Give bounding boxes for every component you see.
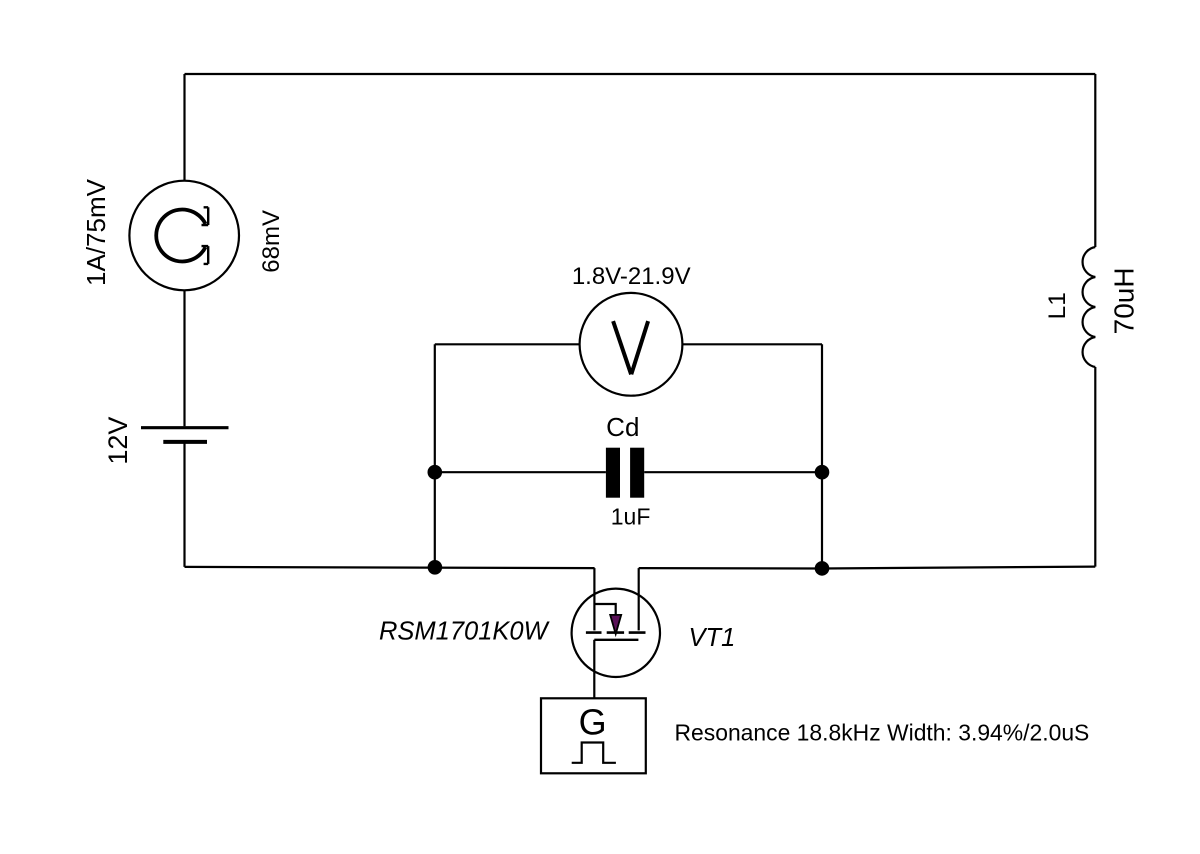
junction node bottom right [815, 561, 830, 576]
voltmeter circle V1 [580, 293, 683, 396]
wire left rail upper [183, 74, 185, 181]
svg-text:Cd: Cd [606, 412, 639, 442]
wire capacitor right [644, 471, 822, 473]
current probe inner ring (open right) [156, 210, 205, 262]
svg-text:70uH: 70uH [1109, 267, 1140, 334]
current probe bracket bottom [202, 246, 209, 264]
gate driver box G [541, 698, 646, 773]
junction node cap right [815, 465, 830, 480]
wire voltmeter right horizontal [682, 343, 822, 345]
gate driver pulse symbol [572, 743, 616, 763]
svg-text:RSM1701K0W: RSM1701K0W [379, 617, 551, 645]
capacitor Cd plate right [630, 448, 644, 498]
current probe circle [129, 181, 239, 291]
wire top rail [185, 73, 1096, 75]
wire bottom rail right [639, 567, 1096, 569]
mosfet gate lead [593, 640, 595, 699]
wire right rail lower [1094, 367, 1096, 567]
mosfet gate electrode [594, 639, 638, 641]
wire right rail upper [1094, 74, 1096, 247]
wire bottom rail left [185, 567, 595, 568]
svg-text:Resonance 18.8kHz Width: 3.94%: Resonance 18.8kHz Width: 3.94%/2.0uS [675, 720, 1090, 746]
inductor L1 70uH [1083, 247, 1096, 367]
svg-text:1.8V-21.9V: 1.8V-21.9V [572, 263, 691, 290]
mosfet drain lead [593, 568, 595, 630]
svg-text:L1: L1 [1044, 292, 1071, 319]
wire voltmeter branch right vertical [821, 344, 823, 568]
wire capacitor left [435, 471, 606, 473]
wire left rail lower (battery to bottom) [183, 444, 185, 567]
mosfet body branch [594, 604, 615, 615]
battery 12V short plate [163, 440, 207, 444]
voltmeter V glyph [613, 321, 648, 374]
junction node bottom left [428, 560, 443, 575]
wire voltmeter left horizontal [435, 343, 580, 345]
battery 12V long plate [141, 426, 229, 429]
capacitor Cd plate left [606, 448, 620, 498]
mosfet body arrow [610, 615, 621, 634]
mosfet source lead [638, 568, 640, 630]
mosfet channel dashes [586, 631, 646, 634]
svg-text:1A/75mV: 1A/75mV [81, 178, 111, 286]
mosfet VT1 circle [572, 589, 660, 677]
wire left rail middle (probe to battery) [183, 290, 185, 426]
svg-text:12V: 12V [103, 417, 133, 465]
svg-text:VT1: VT1 [689, 624, 736, 652]
svg-text:1uF: 1uF [611, 504, 651, 530]
junction node cap left [428, 465, 443, 480]
current probe bracket top [202, 207, 209, 225]
svg-text:G: G [579, 701, 607, 742]
svg-text:68mV: 68mV [258, 210, 285, 273]
wire voltmeter branch left vertical [434, 344, 436, 567]
